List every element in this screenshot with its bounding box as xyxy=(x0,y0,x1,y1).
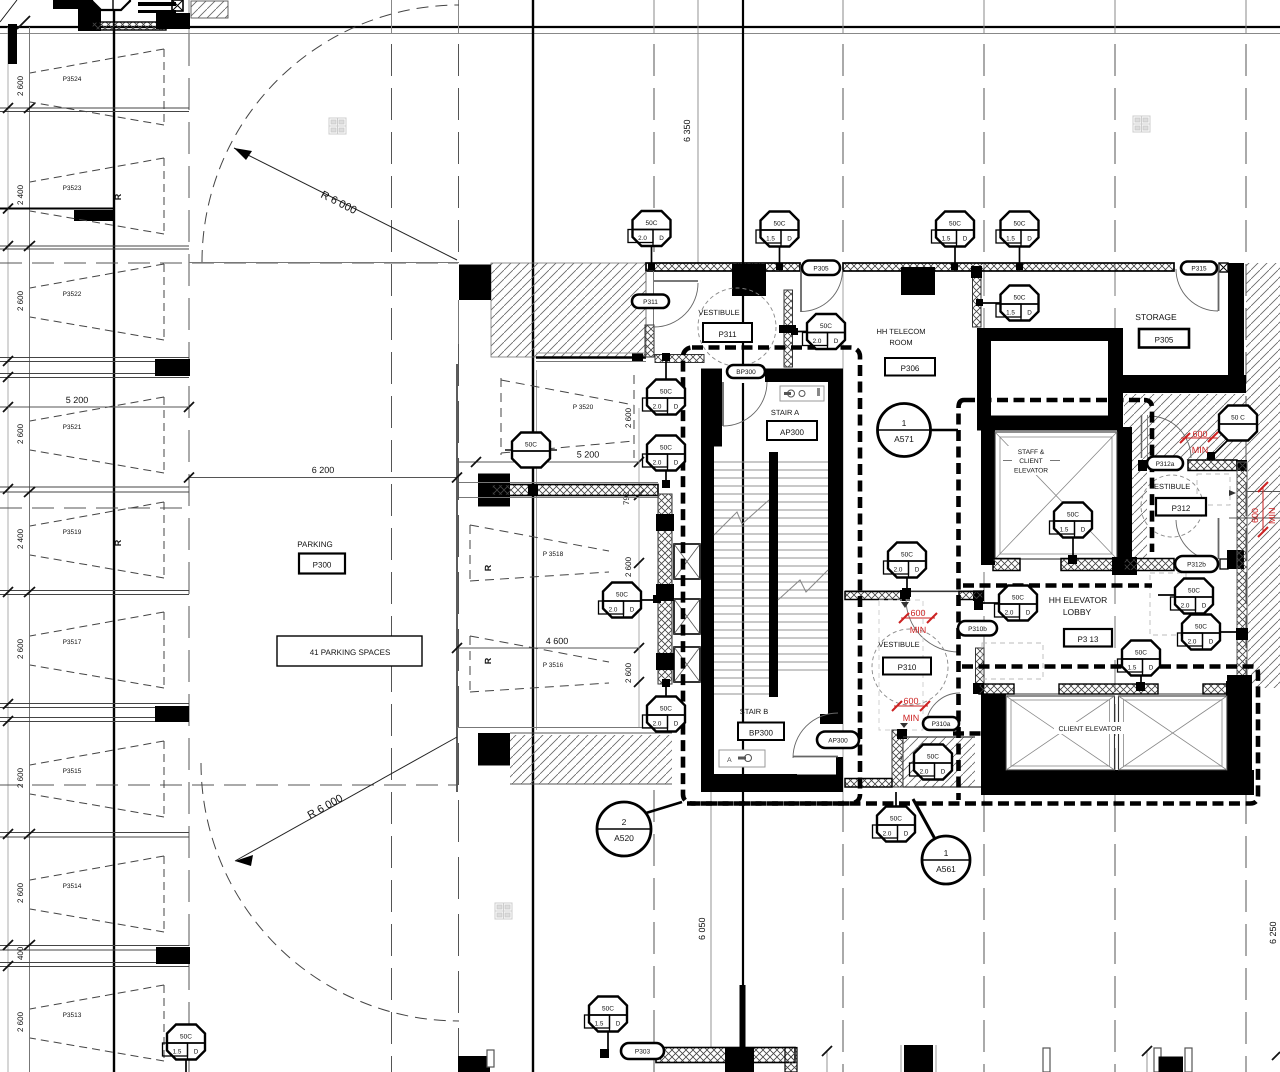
svg-text:P303: P303 xyxy=(635,1049,651,1056)
svg-text:2 400: 2 400 xyxy=(16,528,25,549)
svg-text:STAFF &: STAFF & xyxy=(1018,449,1045,456)
svg-text:D: D xyxy=(674,460,679,467)
svg-text:2 600: 2 600 xyxy=(16,1011,25,1032)
svg-text:STAIR B: STAIR B xyxy=(740,707,769,716)
svg-text:50C: 50C xyxy=(890,816,902,823)
svg-text:1.5: 1.5 xyxy=(1006,310,1015,317)
svg-text:6 350: 6 350 xyxy=(682,119,692,142)
svg-text:D: D xyxy=(659,235,664,242)
svg-text:D: D xyxy=(1149,665,1154,672)
svg-text:P 3516: P 3516 xyxy=(543,662,564,669)
svg-text:D: D xyxy=(1027,310,1032,317)
svg-text:50C: 50C xyxy=(646,220,658,227)
svg-text:P315: P315 xyxy=(1191,266,1207,273)
svg-text:50C: 50C xyxy=(1067,512,1079,519)
svg-text:D: D xyxy=(1081,527,1086,534)
svg-text:50C: 50C xyxy=(1014,295,1026,302)
svg-text:P3519: P3519 xyxy=(63,529,82,536)
svg-text:2 400: 2 400 xyxy=(16,184,25,205)
svg-text:P310: P310 xyxy=(898,663,917,672)
svg-text:D: D xyxy=(963,236,968,243)
svg-text:5 200: 5 200 xyxy=(577,450,600,460)
svg-text:50 C: 50 C xyxy=(1231,415,1245,422)
svg-text:P312: P312 xyxy=(1172,504,1191,513)
svg-text:1.5: 1.5 xyxy=(595,1021,604,1028)
svg-text:D: D xyxy=(904,831,909,838)
svg-text:D: D xyxy=(1026,610,1031,617)
svg-text:ELEVATOR: ELEVATOR xyxy=(1014,468,1048,475)
svg-text:50C: 50C xyxy=(1014,221,1026,228)
svg-text:1.5: 1.5 xyxy=(942,236,951,243)
svg-text:50C: 50C xyxy=(602,1006,614,1013)
svg-text:MIN: MIN xyxy=(910,625,927,635)
svg-text:P 3518: P 3518 xyxy=(543,551,564,558)
svg-text:50C: 50C xyxy=(1135,650,1147,657)
svg-text:50C: 50C xyxy=(927,754,939,761)
svg-text:AP300: AP300 xyxy=(828,737,848,744)
svg-text:50C: 50C xyxy=(901,552,913,559)
svg-text:2.0: 2.0 xyxy=(653,721,662,728)
svg-text:BP300: BP300 xyxy=(749,729,774,738)
svg-text:P306: P306 xyxy=(901,364,920,373)
svg-text:A520: A520 xyxy=(614,833,634,843)
svg-text:P305: P305 xyxy=(813,265,829,272)
svg-text:50C: 50C xyxy=(1195,624,1207,631)
svg-text:CLIENT ELEVATOR: CLIENT ELEVATOR xyxy=(1059,726,1122,733)
svg-text:2: 2 xyxy=(622,817,627,827)
svg-text:P311: P311 xyxy=(718,330,737,339)
svg-text:5 200: 5 200 xyxy=(66,395,89,405)
svg-text:600: 600 xyxy=(903,696,918,706)
svg-text:50C: 50C xyxy=(660,445,672,452)
svg-text:2.0: 2.0 xyxy=(1188,639,1197,646)
svg-text:P312b: P312b xyxy=(1187,562,1206,569)
svg-text:50C: 50C xyxy=(616,592,628,599)
svg-text:P3524: P3524 xyxy=(63,76,82,83)
svg-text:R: R xyxy=(483,657,493,664)
svg-text:D: D xyxy=(787,236,792,243)
svg-text:P310a: P310a xyxy=(932,721,951,728)
svg-text:BP300: BP300 xyxy=(736,369,756,376)
svg-text:50C: 50C xyxy=(660,706,672,713)
svg-text:4 600: 4 600 xyxy=(546,636,569,646)
svg-text:400: 400 xyxy=(16,946,25,960)
svg-text:2.0: 2.0 xyxy=(638,235,647,242)
svg-text:P305: P305 xyxy=(1155,336,1174,345)
svg-text:STAIR A: STAIR A xyxy=(771,408,799,417)
svg-text:1.5: 1.5 xyxy=(1006,236,1015,243)
svg-text:2.0: 2.0 xyxy=(1181,603,1190,610)
svg-text:D: D xyxy=(1209,639,1214,646)
svg-text:D: D xyxy=(616,1021,621,1028)
svg-text:1.5: 1.5 xyxy=(1060,527,1069,534)
svg-text:STORAGE: STORAGE xyxy=(1135,312,1177,322)
svg-text:2.0: 2.0 xyxy=(883,831,892,838)
svg-text:P3521: P3521 xyxy=(63,424,82,431)
svg-text:ESTIBULE: ESTIBULE xyxy=(1154,482,1190,491)
svg-text:2.0: 2.0 xyxy=(920,769,929,776)
svg-text:2.0: 2.0 xyxy=(609,607,618,614)
svg-text:D: D xyxy=(674,721,679,728)
svg-text:2 600: 2 600 xyxy=(624,662,633,683)
svg-text:6 200: 6 200 xyxy=(312,465,335,475)
svg-text:P3 13: P3 13 xyxy=(1078,635,1099,644)
svg-text:D: D xyxy=(915,567,920,574)
svg-text:6 250: 6 250 xyxy=(1268,921,1278,944)
svg-text:P3513: P3513 xyxy=(63,1012,82,1019)
svg-text:2 600: 2 600 xyxy=(16,290,25,311)
svg-text:MIN: MIN xyxy=(903,713,920,723)
svg-text:2.0: 2.0 xyxy=(813,338,822,345)
svg-text:R: R xyxy=(483,564,493,571)
svg-text:1.5: 1.5 xyxy=(173,1049,182,1056)
svg-text:D: D xyxy=(834,338,839,345)
svg-text:P3517: P3517 xyxy=(63,639,82,646)
svg-text:AP300: AP300 xyxy=(780,428,805,437)
svg-text:D: D xyxy=(674,404,679,411)
svg-text:50C: 50C xyxy=(180,1034,192,1041)
svg-text:P3523: P3523 xyxy=(63,185,82,192)
svg-text:P3514: P3514 xyxy=(63,883,82,890)
svg-text:HH ELEVATOR: HH ELEVATOR xyxy=(1049,595,1108,605)
svg-text:ROOM: ROOM xyxy=(889,338,912,347)
svg-text:A: A xyxy=(727,757,732,764)
svg-text:D: D xyxy=(1202,603,1207,610)
svg-text:50C: 50C xyxy=(774,221,786,228)
svg-text:50C: 50C xyxy=(525,442,537,449)
svg-text:2.0: 2.0 xyxy=(653,460,662,467)
svg-text:MIN: MIN xyxy=(1192,445,1209,455)
svg-text:A561: A561 xyxy=(936,864,956,874)
svg-text:50C: 50C xyxy=(1188,588,1200,595)
svg-text:600: 600 xyxy=(910,608,925,618)
svg-text:CLIENT: CLIENT xyxy=(1019,458,1042,465)
svg-text:P 3520: P 3520 xyxy=(573,404,594,411)
svg-text:HH TELECOM: HH TELECOM xyxy=(876,327,925,336)
svg-text:2 600: 2 600 xyxy=(624,407,633,428)
svg-text:1.5: 1.5 xyxy=(1128,665,1137,672)
svg-text:R: R xyxy=(113,539,123,546)
svg-text:2 600: 2 600 xyxy=(16,423,25,444)
svg-text:2 600: 2 600 xyxy=(16,767,25,788)
svg-text:A571: A571 xyxy=(894,434,914,444)
svg-text:P300: P300 xyxy=(313,561,332,570)
svg-text:50C: 50C xyxy=(1012,595,1024,602)
svg-text:50C: 50C xyxy=(949,221,961,228)
svg-text:VESTIBULE: VESTIBULE xyxy=(698,308,739,317)
svg-text:50C: 50C xyxy=(660,389,672,396)
svg-text:MIN: MIN xyxy=(1267,508,1277,525)
svg-text:D: D xyxy=(630,607,635,614)
svg-text:D: D xyxy=(194,1049,199,1056)
svg-text:1.5: 1.5 xyxy=(766,236,775,243)
svg-text:PARKING: PARKING xyxy=(297,540,332,549)
svg-text:2 600: 2 600 xyxy=(16,638,25,659)
svg-text:1: 1 xyxy=(944,848,949,858)
svg-text:6 050: 6 050 xyxy=(697,917,707,940)
svg-text:600: 600 xyxy=(1250,508,1260,523)
svg-text:2 600: 2 600 xyxy=(624,556,633,577)
svg-text:50C: 50C xyxy=(820,323,832,330)
svg-text:P310b: P310b xyxy=(968,626,987,633)
svg-text:R: R xyxy=(113,193,123,200)
svg-text:LOBBY: LOBBY xyxy=(1063,607,1092,617)
svg-text:VESTIBULE: VESTIBULE xyxy=(878,640,919,649)
svg-text:D: D xyxy=(941,769,946,776)
svg-text:D: D xyxy=(1027,236,1032,243)
svg-text:P311: P311 xyxy=(643,299,658,306)
svg-text:P3522: P3522 xyxy=(63,291,82,298)
svg-text:2.0: 2.0 xyxy=(1005,610,1014,617)
svg-text:2.0: 2.0 xyxy=(653,404,662,411)
svg-text:P3515: P3515 xyxy=(63,768,82,775)
svg-text:P312a: P312a xyxy=(1156,461,1175,468)
svg-text:41 PARKING SPACES: 41 PARKING SPACES xyxy=(310,648,391,657)
svg-text:2 600: 2 600 xyxy=(16,75,25,96)
svg-text:2 600: 2 600 xyxy=(16,882,25,903)
svg-text:1: 1 xyxy=(902,418,907,428)
svg-text:2.0: 2.0 xyxy=(894,567,903,574)
